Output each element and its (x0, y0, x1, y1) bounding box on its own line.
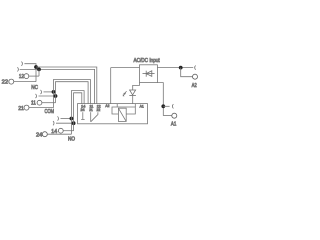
svg-text:A1: A1 (171, 122, 176, 128)
wire terminal 11 (42, 102, 56, 104)
svg-text:21: 21 (89, 108, 93, 112)
svg-text:11: 11 (31, 101, 36, 107)
terminal A2 (193, 74, 198, 79)
svg-text:NC: NC (31, 85, 38, 91)
wire terminal 14 (63, 130, 73, 132)
relay box K1 (78, 104, 148, 124)
wire LED to coil pin (132, 96, 134, 104)
wire A1 to terminal (163, 115, 172, 117)
plug contact arc 21 (41, 90, 42, 94)
wire rectifier bottom-left to LED (133, 83, 140, 90)
terminal 14 (58, 128, 63, 133)
wire net12 to pin (20, 69, 95, 103)
plug contact arc A1 (172, 104, 173, 108)
node junction 22 (34, 65, 38, 69)
wire terminal 22 (14, 81, 36, 83)
coil diagonal (118, 108, 126, 121)
plug contact arc 22 (21, 62, 22, 66)
plug contact arc A2 (195, 66, 196, 70)
terminal 11 (37, 100, 42, 105)
terminal 12 (24, 74, 29, 79)
svg-text:A2: A2 (192, 83, 197, 89)
LED light arrows (123, 91, 127, 96)
coil pin stub A1 (134, 104, 136, 107)
terminal 22 (9, 79, 14, 84)
svg-text:24: 24 (36, 133, 42, 139)
wire arc21 tail (44, 91, 54, 93)
wire terminal 21 (29, 107, 54, 109)
wire net11 riser (56, 82, 89, 104)
rectifier box U1 (140, 65, 158, 83)
wire terminal 24 (47, 133, 71, 135)
wire arc24 tail (61, 118, 72, 120)
wire terminal 12 (29, 75, 39, 77)
svg-text:A2: A2 (105, 104, 109, 108)
svg-text:COM: COM (45, 109, 55, 115)
coil K1 (118, 108, 126, 121)
plug contact arc 14 (53, 121, 54, 125)
svg-text:A1: A1 (140, 104, 144, 108)
svg-text:22: 22 (97, 108, 101, 112)
node junction 21 (52, 90, 56, 94)
wire vertical to coil pin A2 (110, 68, 112, 104)
node junction 24 (70, 117, 74, 121)
LED D1 (129, 90, 136, 96)
wire rectifier input left (111, 67, 140, 69)
node A2 (179, 66, 183, 70)
terminal A1 (172, 113, 177, 118)
wire arc11 tail (39, 95, 56, 97)
terminal 21 (24, 105, 29, 110)
node A1 (161, 104, 165, 108)
wire rectifier bottom-right to A1 (157, 83, 163, 116)
coil pin stub A2 (116, 104, 118, 107)
node junction 12 (37, 68, 41, 72)
node junction 11 (54, 94, 58, 98)
wire arc22 tail (24, 64, 36, 82)
wire riser 12 (38, 69, 40, 76)
plug contact arc 24 (58, 116, 59, 120)
wire net21 riser (54, 80, 91, 108)
wire rectifier to A2 node (157, 67, 193, 69)
coil wiring frame (112, 107, 135, 114)
svg-text:AC/DC Input: AC/DC Input (134, 58, 161, 64)
svg-text:24: 24 (81, 108, 85, 112)
wire net24 riser (71, 91, 84, 135)
wire A1 to arc (163, 105, 169, 107)
wire A2 drop (181, 68, 193, 77)
plug contact arc 12 (17, 67, 18, 71)
wire net22 to pin (36, 67, 97, 104)
svg-text:22: 22 (2, 79, 8, 85)
svg-text:NO: NO (68, 137, 75, 143)
plug contact arc 11 (36, 94, 37, 98)
svg-text:12: 12 (19, 74, 24, 80)
terminal 24 (42, 132, 47, 137)
svg-text:21: 21 (18, 106, 24, 112)
wire arc14 tail (56, 122, 74, 124)
wire net14 riser (74, 93, 82, 131)
rectifier diode symbol (143, 71, 155, 77)
switch lever (91, 114, 99, 122)
switch NC contact stub (97, 112, 99, 114)
switch NO contact stub (82, 112, 84, 119)
node junction 14 (72, 121, 76, 125)
switch COM lead (90, 112, 92, 122)
